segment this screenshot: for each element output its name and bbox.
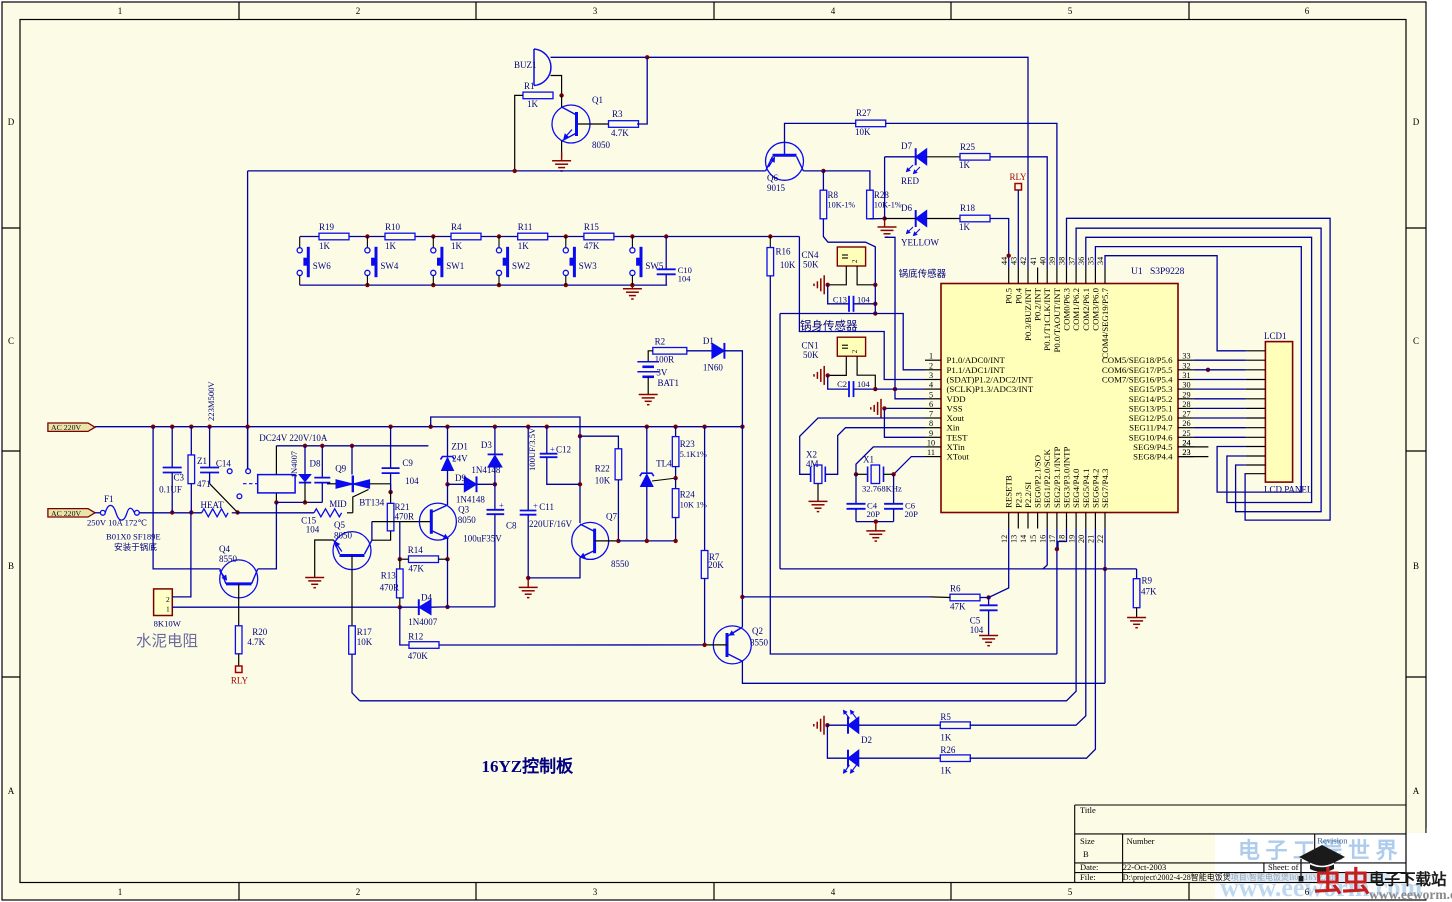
svg-text:R6: R6 (950, 584, 961, 594)
node AC rail junction (170, 425, 174, 429)
resistor R3 (609, 121, 639, 128)
IC pin 9 TEST (925, 436, 941, 438)
svg-text:SEG6/P4.2: SEG6/P4.2 (1090, 469, 1100, 508)
svg-text:COM4/SEG19/P5.7: COM4/SEG19/P5.7 (1100, 287, 1110, 358)
svg-text:38: 38 (1058, 257, 1067, 265)
IC pin 42 P0.3/BUZ/INT (1027, 268, 1029, 284)
svg-text:C8: C8 (506, 521, 517, 531)
svg-text:U1: U1 (1131, 267, 1143, 277)
IC pin 14 P2.2/SI (1027, 513, 1029, 529)
wire R3 right up to rail (637, 57, 647, 124)
node AC rail junction (429, 425, 433, 429)
node AC rail junction (388, 425, 392, 429)
heater HEAT (202, 509, 228, 517)
IC pin24 stub (1178, 446, 1208, 448)
wire relay coil top to 24V rail (275, 446, 277, 475)
svg-text:Xout: Xout (947, 413, 965, 423)
svg-text:C9: C9 (402, 458, 413, 468)
node C8 bus junction (445, 605, 449, 609)
capacitor C3 (171, 427, 173, 468)
capacitor C5 104 (988, 598, 990, 606)
transistor Q2 8550 (713, 626, 751, 664)
svg-text:R14: R14 (408, 545, 424, 555)
wire Q9 gate (353, 490, 369, 513)
LCD pin stub (1246, 369, 1266, 371)
svg-text:7: 7 (929, 410, 933, 419)
svg-text:9015: 9015 (767, 183, 786, 193)
svg-text:SEG15/P5.3: SEG15/P5.3 (1129, 384, 1173, 394)
svg-text:P1.0/ADC0/INT: P1.0/ADC0/INT (947, 355, 1006, 365)
IC pin 24 SEG9/P4.5 (1178, 446, 1194, 448)
svg-text:BT134: BT134 (359, 498, 385, 508)
node pin32 line (1206, 368, 1210, 372)
resistor R22 (615, 449, 622, 480)
port AC 220V line (48, 423, 95, 431)
capacitor C2 (828, 375, 849, 389)
resistor R13 (399, 559, 401, 569)
IC pin 23 SEG8/P4.4 (1178, 456, 1194, 458)
capacitor C10 (665, 237, 667, 270)
buzzer BUZ1 (534, 49, 551, 86)
IC pin 44 P0.5 (1008, 268, 1010, 284)
svg-text:1N4148: 1N4148 (471, 465, 500, 475)
capacitor C14 223M500V (209, 427, 211, 468)
zener ZD1 24V (447, 427, 449, 457)
svg-text:BUZ1: BUZ1 (514, 60, 537, 70)
svg-text:R9: R9 (1142, 576, 1153, 586)
svg-text:X1: X1 (863, 455, 874, 465)
svg-text:1K: 1K (319, 241, 331, 251)
svg-text:RLY: RLY (1009, 172, 1027, 182)
ground C5 (979, 635, 998, 637)
transistor Q6 9015 (766, 142, 804, 180)
border row ticks right (1406, 227, 1426, 229)
svg-text:27: 27 (1182, 410, 1190, 419)
svg-text:1: 1 (118, 6, 123, 16)
LED D2 lower (827, 725, 847, 758)
wire pin38 nest (1067, 218, 1331, 520)
svg-text:XTout: XTout (947, 452, 970, 462)
svg-text:2: 2 (356, 6, 361, 16)
node ZD1 bottom junction (445, 482, 449, 486)
connector CN1 pot-body sensor (837, 337, 865, 356)
resistor R8 (820, 190, 827, 219)
svg-text:RLY: RLY (231, 676, 249, 686)
resistor R6 47K (950, 594, 980, 601)
svg-text:16YZ控制板: 16YZ控制板 (482, 756, 575, 776)
node bus R1 junction (513, 169, 517, 173)
switch SW6 (299, 237, 301, 248)
node P44 net on pin4 line (893, 387, 897, 391)
svg-text:Q2: Q2 (752, 626, 763, 636)
wire Q9 MT2 to R21 node (390, 484, 392, 492)
IC pin 29 SEG14/P5.2 (1178, 398, 1194, 400)
svg-text:13: 13 (1010, 535, 1019, 543)
svg-text:16: 16 (1038, 535, 1047, 543)
node AC rail junction (445, 425, 449, 429)
LCD pin stub (1246, 446, 1266, 448)
ground BAT1 (639, 394, 658, 396)
svg-text:R16: R16 (776, 247, 792, 257)
shunt reference TL431 (646, 427, 648, 474)
node D2 ground junction (825, 723, 829, 727)
resistor R7 20K (704, 427, 706, 551)
IC pin 31 COM7/SEG16/P5.4 (1178, 379, 1194, 381)
svg-text:MID: MID (329, 499, 347, 509)
wire D6 to R18 (927, 218, 960, 220)
wire to MID (238, 512, 314, 514)
svg-text:B: B (8, 561, 14, 571)
wire sensor divider vertical (874, 285, 876, 314)
svg-text:P1.1/ADC1/INT: P1.1/ADC1/INT (947, 365, 1006, 375)
svg-text:SEG0/P2.1/SO: SEG0/P2.1/SO (1033, 455, 1043, 508)
LCD pin stub (1246, 350, 1266, 352)
svg-text:锅身传感器: 锅身传感器 (800, 319, 858, 333)
capacitor C11 220UF/16V (527, 427, 529, 511)
svg-text:D6: D6 (901, 203, 912, 213)
svg-text:D1: D1 (703, 336, 714, 346)
wire CN4 left pin (828, 266, 847, 285)
svg-text:HEAT: HEAT (201, 500, 224, 510)
svg-text:VDD: VDD (947, 394, 966, 404)
svg-text:0.1UF: 0.1UF (159, 484, 182, 494)
node CN1 ground junction (826, 373, 830, 377)
wire D1 to AC rail and Q2 emitter (724, 351, 742, 627)
svg-text:30: 30 (1182, 381, 1190, 390)
IC pin 35 COM3/P6.0 (1094, 268, 1096, 284)
resistor R25 (960, 154, 990, 161)
wire Q5 collector to base line (371, 522, 373, 541)
resistor R21 (390, 492, 392, 503)
svg-text:2: 2 (166, 595, 170, 604)
svg-text:水泥电阻: 水泥电阻 (136, 632, 198, 650)
svg-text:C11: C11 (539, 502, 554, 512)
svg-text:Z1: Z1 (197, 456, 207, 466)
svg-text:R12: R12 (408, 632, 423, 642)
svg-text:100UF/3.5V: 100UF/3.5V (527, 427, 537, 471)
svg-text:R26: R26 (940, 745, 956, 755)
crystal X2 4M (810, 467, 812, 483)
wire Q3 base line (372, 521, 431, 523)
capacitor C6 (893, 474, 895, 504)
IC pin 3 (SDAT)P1.2/ADC2/INT (925, 379, 941, 381)
svg-text:R2: R2 (655, 337, 666, 347)
LCD pin stub (1246, 379, 1266, 381)
wire VSS to TEST pin9 (884, 408, 925, 437)
svg-text:10K-1%: 10K-1% (828, 201, 856, 210)
node CN4 ground junction (826, 283, 830, 287)
svg-text:YELLOW: YELLOW (901, 238, 939, 248)
node R14 left junction (398, 557, 402, 561)
svg-text:ZD1: ZD1 (451, 441, 468, 451)
node divider to H1 (873, 311, 877, 315)
svg-text:35: 35 (1087, 257, 1096, 265)
IC pin 36 COM2/P6.1 (1085, 268, 1087, 284)
node AC rail junction (673, 425, 677, 429)
svg-text:1N60: 1N60 (703, 363, 723, 373)
IC pin 43 P0.4 (1017, 268, 1019, 284)
IC pin 6 VSS (925, 407, 941, 409)
watermark graduation cap logo (1299, 845, 1345, 869)
node R23 R24 junction (673, 476, 677, 480)
svg-text:Q3: Q3 (458, 505, 469, 515)
ground CN4 (823, 275, 825, 294)
svg-text:Revision: Revision (1317, 836, 1348, 846)
wire bus left drop to AC line (247, 171, 249, 469)
wire HEAT to relay contact node (232, 512, 238, 514)
wire R21 bottom (372, 531, 391, 540)
wire junction to R28 top (823, 171, 870, 190)
svg-text:47K: 47K (408, 564, 424, 574)
svg-text:10K: 10K (855, 127, 871, 137)
svg-text:8050: 8050 (458, 515, 477, 525)
ground D2 (823, 716, 825, 735)
node D9 right junction (493, 482, 497, 486)
svg-text:100uF35V: 100uF35V (463, 534, 502, 544)
svg-text:安装于锅底: 安装于锅底 (114, 541, 157, 552)
svg-text:22-Oct-2003: 22-Oct-2003 (1123, 862, 1166, 872)
svg-text:R25: R25 (960, 142, 976, 152)
wire crystal cap bottom (856, 521, 894, 523)
wire F1 to HEAT (139, 512, 201, 514)
node R16 top junction (768, 234, 772, 238)
IC U1 S3P9228 body (941, 284, 1178, 513)
LCD pin stub (1246, 398, 1266, 400)
svg-text:R13: R13 (381, 571, 397, 581)
diode D8 1N4007 flyback (304, 446, 306, 474)
wire coil bottom to D8/C15 (276, 501, 322, 503)
svg-text:6: 6 (929, 400, 933, 409)
svg-text:470R: 470R (395, 512, 415, 522)
svg-text:3: 3 (929, 371, 933, 380)
svg-text:47K: 47K (584, 241, 600, 251)
svg-text:R5: R5 (940, 712, 951, 722)
svg-text:8K10W: 8K10W (154, 619, 182, 629)
IC pin 12 RESETB (1008, 513, 1010, 529)
ground C11 (527, 578, 529, 588)
svg-text:+: + (499, 500, 504, 510)
svg-text:C5: C5 (970, 615, 981, 625)
svg-text:24: 24 (1182, 438, 1190, 447)
svg-text:COM3/P6.0: COM3/P6.0 (1090, 287, 1100, 330)
svg-text:Number: Number (1127, 836, 1155, 846)
LCD pin stub (1246, 359, 1266, 361)
svg-text:29: 29 (1182, 390, 1190, 399)
node R1 right junction (559, 93, 563, 97)
svg-text:SEG13/P5.1: SEG13/P5.1 (1129, 403, 1173, 413)
svg-text:P0.4: P0.4 (1013, 287, 1023, 303)
svg-text:20P: 20P (867, 509, 881, 519)
svg-text:SEG4/P4.0: SEG4/P4.0 (1071, 468, 1081, 508)
IC pin 20 SEG5/P4.1 (1085, 513, 1087, 529)
svg-text:R3: R3 (612, 109, 623, 119)
port AC 220V neutral (48, 509, 95, 517)
svg-text:R20: R20 (252, 627, 268, 637)
svg-text:12: 12 (1000, 535, 1009, 543)
svg-text:COM2/P6.1: COM2/P6.1 (1081, 288, 1091, 331)
svg-text:10K-1%: 10K-1% (874, 201, 902, 210)
node pin22 bus junction (1103, 567, 1107, 571)
svg-text:104: 104 (857, 379, 871, 389)
resistor R23 5.1K1% (675, 427, 677, 437)
svg-text:P2.3: P2.3 (1013, 492, 1023, 508)
svg-text:5: 5 (1068, 6, 1073, 16)
svg-text:R11: R11 (518, 222, 533, 232)
svg-text:B: B (1083, 849, 1089, 859)
svg-text:www.eeworm.com: www.eeworm.com (1369, 887, 1452, 902)
wire pin37 nest (1076, 228, 1321, 512)
node AC rail junction (207, 425, 211, 429)
node AC rail junction (245, 425, 249, 429)
node switch top junction (564, 234, 568, 238)
resistor R12 (400, 607, 410, 645)
svg-text:X2: X2 (806, 450, 817, 460)
wire 8K10W pin1 bus (172, 606, 399, 608)
transistor Q4 8550 (220, 560, 258, 598)
svg-text:D2: D2 (861, 735, 872, 745)
battery BAT1 3V (637, 361, 659, 363)
title block frame (1075, 804, 1406, 806)
resistor R18 (960, 215, 990, 222)
svg-text:10K: 10K (780, 260, 796, 270)
switch SW5 (631, 237, 633, 248)
node VSS junction (882, 406, 886, 410)
LCD pin stub (1246, 407, 1266, 409)
svg-text:C: C (8, 336, 14, 346)
svg-text:Title: Title (1080, 805, 1096, 815)
svg-text:SW6: SW6 (313, 261, 332, 271)
svg-text:1: 1 (166, 605, 170, 614)
resistor R19 (319, 233, 349, 240)
LCD pin stub (1246, 427, 1266, 429)
IC pin 4 (SCLK)P1.3/ADC3/INT (925, 388, 941, 390)
ground VSS (880, 399, 882, 418)
svg-text:8550: 8550 (611, 559, 630, 569)
IC pin 30 SEG15/P5.3 (1178, 388, 1194, 390)
capacitor C9 (390, 427, 392, 468)
IC pin 27 SEG12/P5.0 (1178, 417, 1194, 419)
svg-text:R23: R23 (680, 439, 696, 449)
wire D7 to R25 (927, 156, 960, 158)
svg-text:LCD1: LCD1 (1264, 331, 1287, 341)
wire pin17 drop to bus654 (1056, 529, 1058, 655)
svg-text:4: 4 (831, 6, 836, 16)
node D8 top (303, 444, 307, 448)
wire pin10 to X1 left (856, 447, 925, 474)
node pin44 junction (1007, 254, 1011, 258)
transistor Q7 8550 (572, 522, 609, 559)
svg-text:1K: 1K (385, 241, 397, 251)
wire R27 right to pin39 (885, 123, 1057, 267)
relay coil K1 (243, 483, 258, 485)
svg-text:P2.2/SI: P2.2/SI (1023, 482, 1033, 508)
wire relay coil bottom (275, 493, 277, 503)
node LED anode ground junction (882, 216, 886, 220)
IC pin 2 P1.1/ADC1/INT (925, 369, 941, 371)
svg-text:39: 39 (1048, 257, 1057, 265)
svg-text:D4: D4 (421, 593, 432, 603)
node switch bottom junction (564, 283, 568, 287)
svg-text:C13: C13 (833, 294, 847, 304)
node AC rail junction (645, 425, 649, 429)
svg-text:37: 37 (1067, 257, 1076, 265)
svg-text:1K: 1K (940, 766, 952, 776)
svg-text:6: 6 (1305, 6, 1310, 16)
svg-text:虫虫: 虫虫 (1314, 866, 1370, 898)
node relay arm junction (235, 510, 239, 514)
svg-text:20: 20 (1077, 535, 1086, 543)
LCD pin stub (1246, 436, 1266, 438)
wire Q7 base R22 (580, 436, 618, 449)
LCD pin stub (1246, 455, 1266, 457)
svg-text:Q1: Q1 (592, 95, 603, 105)
wire Q3 emitter to C8 bus (447, 559, 449, 607)
svg-text:41: 41 (1029, 257, 1038, 265)
ground X2 (809, 500, 828, 502)
IC pin 10 XTin (925, 446, 941, 448)
node C11 ground junction (526, 576, 530, 580)
LCD1 panel body (1265, 342, 1292, 483)
svg-text:10: 10 (927, 438, 935, 447)
svg-text:6: 6 (1305, 887, 1310, 897)
node switch top junction (497, 234, 501, 238)
crystal X1 32.768KHz (856, 473, 868, 475)
node C13 right junction (873, 302, 877, 306)
resistor R26 1K (940, 755, 970, 762)
svg-text:VSS: VSS (947, 403, 963, 413)
IC pin 37 COM1/P6.2 (1075, 268, 1077, 284)
resistor R15 (584, 233, 614, 240)
svg-text:24V: 24V (452, 454, 468, 464)
svg-text:Q6: Q6 (767, 173, 778, 183)
svg-text:8550: 8550 (219, 554, 238, 564)
wire R12 to Q2 base (439, 644, 705, 646)
wire R2 left to battery (648, 351, 653, 362)
ground switch row (631, 285, 633, 289)
svg-text:1N4007: 1N4007 (290, 451, 299, 478)
svg-text:Sheet: of: Sheet: of (1268, 862, 1299, 872)
svg-text:21: 21 (1087, 535, 1096, 543)
svg-text:R18: R18 (960, 203, 976, 213)
IC pin 32 COM6/SEG17/P5.5 (1178, 369, 1194, 371)
fuse F1 (95, 512, 100, 514)
svg-text:SW4: SW4 (380, 261, 399, 271)
node switch top junction (365, 234, 369, 238)
svg-text:10K 1%: 10K 1% (680, 501, 707, 510)
wire VSS ground (884, 407, 925, 409)
node AC rail junction (151, 425, 155, 429)
wire AC rail to Q4 emitter (153, 427, 220, 569)
node Q7 base junction (616, 539, 620, 543)
svg-text:47K: 47K (1141, 587, 1157, 597)
wire pin35 nest (1095, 247, 1301, 493)
wire X2 ground stem (817, 484, 819, 502)
capacitor C12 (546, 427, 548, 454)
IC pin 11 XTout (925, 456, 941, 458)
transistor Q1 8050 (552, 105, 590, 143)
svg-text:R28: R28 (874, 190, 890, 200)
resistor R9 47K (1136, 569, 1138, 579)
svg-text:20K: 20K (708, 560, 724, 570)
node X1 left (854, 472, 858, 476)
svg-text:1K: 1K (518, 241, 530, 251)
node Q9 R21 C9 junction (388, 490, 392, 494)
resistor R11 (518, 233, 548, 240)
IC pin 41 P0.2/INT (1037, 268, 1039, 284)
wire pin7 to X2 left (800, 418, 925, 474)
node AC rail junction (545, 425, 549, 429)
svg-text:P0.3/BUZ/INT: P0.3/BUZ/INT (1023, 287, 1033, 341)
